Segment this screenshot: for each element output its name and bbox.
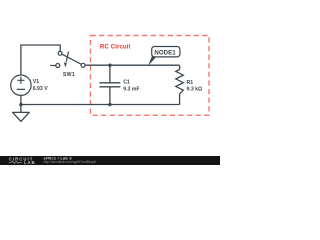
wire V1 bottom to ground	[20, 95, 22, 112]
switch blade	[62, 54, 81, 64]
wire resistor leads	[179, 65, 181, 104]
svg-text:RC Circuit: RC Circuit	[100, 43, 131, 50]
wire V1 top to switch	[21, 45, 60, 75]
resistor R1 zigzag	[176, 70, 184, 94]
label V1 value	[33, 79, 49, 92]
footer logo CircuitLab	[9, 157, 36, 165]
annotation box RC Circuit (red dashed)	[91, 36, 210, 116]
svg-text:9.3 kΩ: 9.3 kΩ	[187, 86, 203, 92]
svg-text:C1: C1	[123, 80, 130, 86]
wire bottom rail	[21, 104, 180, 106]
label R1 value	[187, 80, 203, 92]
wire capacitor stems	[109, 65, 111, 104]
capacitor C1	[99, 83, 120, 87]
svg-text:http://circuitlab.com/cgd57xv4: http://circuitlab.com/cgd57xv48kvp6	[44, 160, 96, 164]
svg-text:6.93 V: 6.93 V	[33, 86, 49, 92]
junction dot C1 top	[108, 63, 111, 66]
ground	[13, 112, 30, 121]
switch SW1	[50, 51, 85, 67]
svg-text:NODE1: NODE1	[154, 50, 176, 57]
label C1 value	[123, 80, 139, 93]
wire main top rail	[85, 64, 180, 66]
junction dot at V1 bottom	[19, 103, 22, 106]
junction dot C1 bottom	[108, 103, 111, 106]
svg-text:9.3 mF: 9.3 mF	[123, 86, 139, 92]
svg-text:V1: V1	[33, 79, 39, 85]
svg-text:R1: R1	[187, 80, 194, 86]
footer bar	[0, 156, 220, 165]
voltage source V1	[11, 75, 31, 95]
node flag NODE1	[148, 47, 180, 66]
svg-text:SW1: SW1	[63, 72, 75, 78]
switch actuation arrow	[66, 52, 68, 62]
svg-text:LAB: LAB	[24, 160, 36, 165]
